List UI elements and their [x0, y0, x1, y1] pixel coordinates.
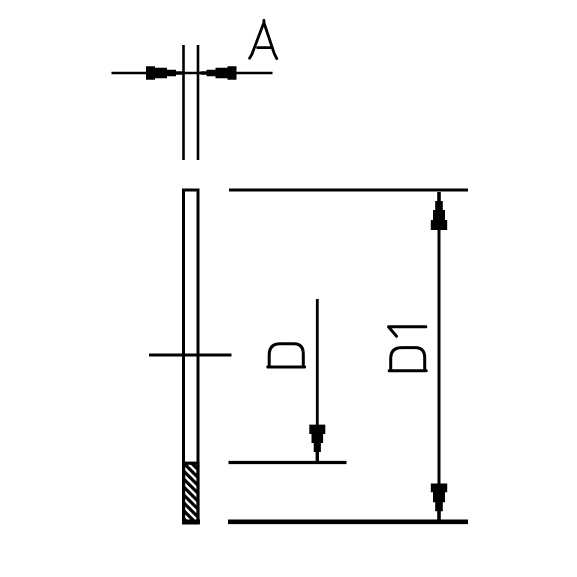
- node: main rectangle body outline: [184, 190, 199, 523]
- node: label D1 (rotated): [389, 327, 427, 371]
- wire: thick bottom edge of body: [182, 519, 200, 524]
- node: bottom arrowhead of dimension D1: [431, 484, 447, 521]
- node: right arrowhead of dimension A: [201, 66, 237, 80]
- wire: dimension line D1 vertical: [438, 192, 441, 520]
- wire: left vertical line of thin strip (thickness view): [182, 45, 185, 160]
- wire: dimension line A horizontal: [112, 72, 273, 75]
- node: label D (rotated): [268, 344, 305, 367]
- node: left arrowhead of dimension A: [146, 66, 182, 80]
- wire: dimension line D vertical: [316, 299, 319, 430]
- node: arrowhead of dimension D: [309, 425, 325, 462]
- wire: bottom reference line D1: [228, 519, 468, 524]
- wire: right vertical line of thin strip (thickness view): [197, 45, 200, 160]
- node: label A: [250, 20, 277, 58]
- wire: short reference line D: [229, 461, 347, 464]
- wire: top reference line D1: [229, 189, 468, 192]
- node: top arrowhead of dimension D1: [431, 192, 447, 230]
- wire: centerline through body: [149, 354, 232, 357]
- node: hatched section at bottom of body: [184, 463, 198, 522]
